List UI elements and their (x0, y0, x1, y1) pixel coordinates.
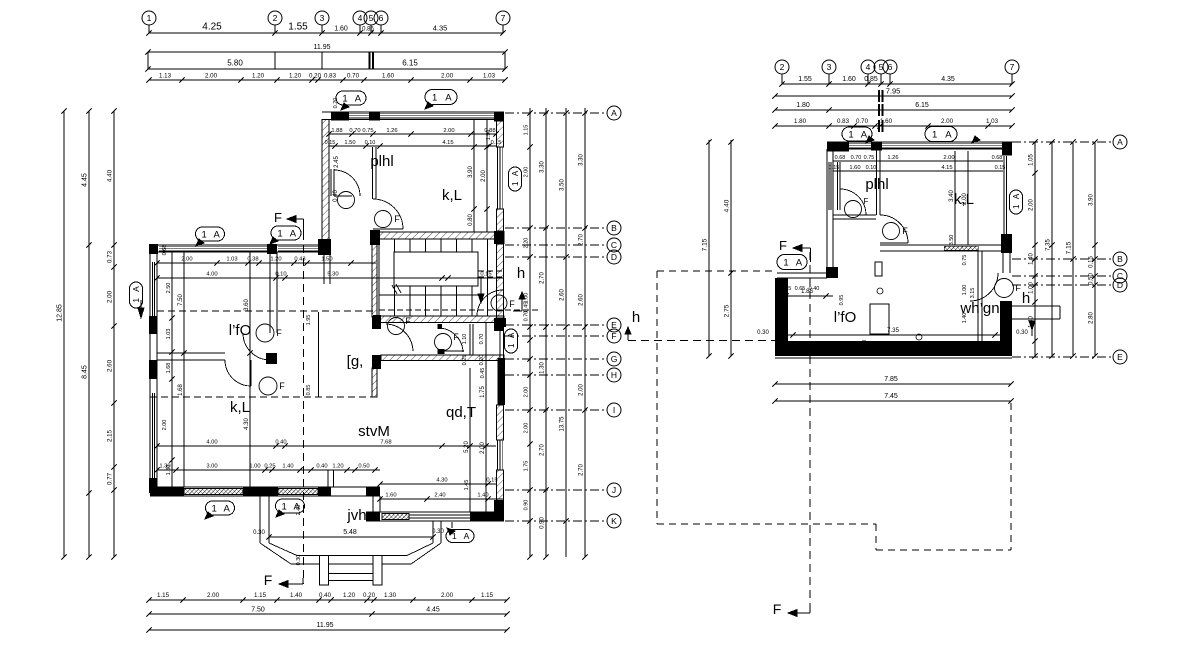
svg-text:12.85: 12.85 (57, 304, 64, 322)
svg-text:1.45: 1.45 (464, 480, 470, 491)
grid bubble E (left plan right) (607, 318, 621, 332)
svg-text:1.60: 1.60 (849, 165, 860, 171)
rp chimney arrow (1029, 321, 1035, 330)
rp window top 1 (849, 142, 871, 144)
svg-text:A: A (213, 229, 220, 240)
svg-text:6: 6 (888, 62, 893, 72)
door circle lfO upper (256, 324, 274, 342)
door circle bath right (wc) (435, 334, 452, 351)
svg-text:0.30: 0.30 (253, 530, 265, 536)
svg-text:0.90: 0.90 (540, 517, 546, 529)
rp fixture rect lfO (870, 304, 889, 334)
svg-text:2: 2 (780, 62, 785, 72)
section marker arrow a (341, 103, 349, 110)
svg-text:E: E (611, 320, 617, 330)
svg-text:1.03: 1.03 (166, 329, 172, 340)
grid leader 2 (right plan) (781, 74, 783, 84)
svg-text:3.00: 3.00 (206, 464, 217, 470)
svg-text:A: A (131, 286, 141, 292)
rp pier top-mid (871, 142, 882, 151)
wall corridor west hatched (372, 368, 377, 397)
svg-text:[g,: [g, (347, 353, 364, 370)
svg-text:5.80: 5.80 (227, 59, 243, 68)
grid leader J (505, 489, 606, 491)
svg-text:0.38: 0.38 (247, 257, 258, 263)
column pier top-left upper block (331, 112, 349, 121)
svg-text:0.15: 0.15 (491, 140, 502, 146)
svg-text:1.30: 1.30 (540, 362, 546, 374)
rp thick wall south (775, 341, 1012, 356)
svg-text:0.20: 0.20 (479, 355, 485, 366)
svg-text:1.15: 1.15 (524, 125, 530, 136)
section oval jvh (446, 530, 474, 543)
rp rotated section oval right (1010, 190, 1023, 214)
svg-text:plhl: plhl (865, 176, 888, 193)
kL inner vdim 3.90 (473, 119, 475, 232)
grid leader 4 (right plan) (867, 74, 869, 84)
grid leader H (505, 374, 606, 376)
svg-text:1.55: 1.55 (288, 22, 308, 33)
section marker oval 1A b (425, 90, 457, 105)
svg-text:0.15: 0.15 (829, 165, 840, 171)
rp section oval top2 (925, 127, 957, 142)
svg-text:4.00: 4.00 (206, 440, 217, 446)
svg-text:2.75: 2.75 (724, 304, 731, 317)
svg-text:1.05: 1.05 (1029, 154, 1035, 166)
grid bubble A (left plan right) (607, 106, 621, 120)
porch dim 5.48 (269, 536, 433, 538)
rp window kL south (944, 246, 978, 250)
svg-text:1: 1 (131, 298, 141, 303)
column pier qdT bottom-right (494, 500, 504, 521)
stair lower flight line (379, 294, 478, 296)
svg-text:qd,T: qd,T (446, 404, 476, 421)
column pier top-mid upper block (369, 112, 380, 121)
rp wall right window (1003, 156, 1005, 234)
section F bottom arrow (279, 581, 288, 588)
rp window left (828, 162, 830, 210)
svg-text:7.15: 7.15 (1066, 241, 1073, 254)
window top wall plhl (349, 112, 369, 114)
svg-text:0.75: 0.75 (864, 155, 875, 161)
wall lower-block left (149, 252, 151, 487)
svg-text:A: A (611, 108, 617, 118)
grid leader D (505, 256, 606, 258)
svg-text:1.50: 1.50 (321, 257, 332, 263)
rp grid leader A (1012, 141, 1112, 143)
svg-text:0.20: 0.20 (363, 592, 376, 599)
svg-text:1.10: 1.10 (462, 334, 468, 345)
grid bubble F (left plan right) (607, 329, 621, 343)
svg-text:0.25: 0.25 (781, 286, 792, 292)
svg-text:7.15: 7.15 (702, 238, 709, 251)
view marker oval left edge (130, 282, 143, 308)
svg-text:1: 1 (932, 129, 937, 140)
interior wall lfO south (157, 352, 225, 354)
svg-text:A: A (445, 92, 452, 103)
svg-text:1.75: 1.75 (480, 386, 486, 398)
svg-text:8.45: 8.45 (82, 365, 89, 379)
rp step wall (777, 272, 827, 274)
rp dashed outline west (656, 271, 658, 524)
column pier stair top-right (494, 231, 504, 244)
porch outline outer (260, 543, 441, 564)
door arc bath right (438, 328, 463, 352)
grid leader line 4 (359, 25, 361, 33)
grid bubble 6 (right plan top) (883, 60, 897, 74)
grid bubble B (left plan right) (607, 221, 621, 235)
grid bubble 3 (left plan top) (315, 11, 329, 25)
wall lb bottom black 1 (150, 487, 184, 496)
svg-text:13.75: 13.75 (560, 416, 566, 432)
section oval lb mid1 (196, 227, 225, 241)
rp section arrow top2 (972, 136, 980, 143)
svg-text:F: F (611, 331, 616, 341)
svg-text:2.60: 2.60 (560, 289, 566, 301)
wall bath bottom (381, 355, 504, 361)
svg-text:3.40: 3.40 (949, 190, 955, 202)
rp right dim col4 (1094, 142, 1096, 356)
svg-text:4.35: 4.35 (433, 24, 448, 33)
rp closet bottom wall (833, 214, 876, 216)
svg-text:7: 7 (1010, 62, 1015, 72)
g-room dashes bottom (150, 396, 376, 398)
rp interior wall kL south (880, 244, 1003, 246)
svg-text:2.00: 2.00 (941, 118, 954, 125)
rp wall left (826, 149, 828, 267)
rp grid bubble D (1113, 278, 1127, 292)
dimension line row1 (left plan top) (149, 32, 503, 34)
svg-text:1.13: 1.13 (159, 73, 172, 80)
svg-text:2.50: 2.50 (166, 283, 172, 294)
svg-text:3.60: 3.60 (244, 299, 250, 311)
door pier bath left top (373, 315, 381, 328)
svg-text:D: D (1117, 280, 1123, 290)
svg-text:1.40: 1.40 (282, 464, 293, 470)
grid bubble K (left plan right) (607, 514, 621, 528)
svg-text:6.15: 6.15 (402, 59, 418, 68)
rp wall south outer face line (775, 357, 1012, 359)
grid leader K (505, 520, 606, 522)
svg-text:1.20: 1.20 (270, 257, 281, 263)
svg-text:3: 3 (827, 62, 832, 72)
porch side walls left (259, 496, 261, 543)
grid leader line 5 (370, 25, 372, 33)
rp dashed outline north (657, 270, 775, 272)
wall lb bottom black 3 (318, 487, 331, 496)
view marker arrow left edge (138, 308, 144, 318)
rp door circle plhl closet (845, 201, 862, 218)
stair dashed break upper (478, 270, 503, 272)
g-room west line (318, 312, 320, 397)
rp dim row interior1 (833, 160, 1003, 162)
grid bubble J (left plan right) (607, 483, 621, 497)
svg-text:F: F (1015, 283, 1021, 293)
svg-text:0.15: 0.15 (325, 140, 336, 146)
bath wc leaf (440, 350, 464, 352)
svg-text:0.65: 0.65 (795, 286, 806, 292)
svg-text:5: 5 (369, 13, 374, 23)
svg-text:2.00: 2.00 (579, 384, 585, 396)
left vertical dim line segments (113, 111, 115, 557)
svg-text:A: A (507, 332, 516, 338)
svg-text:1.80: 1.80 (796, 102, 810, 109)
svg-text:2.00: 2.00 (480, 442, 486, 454)
svg-text:1.00: 1.00 (249, 464, 260, 470)
rp dashed outline east (1010, 403, 1012, 550)
wall lower-block bottom (150, 486, 380, 488)
svg-text:2.70: 2.70 (540, 272, 546, 284)
svg-text:0.77: 0.77 (107, 472, 114, 485)
svg-text:0.25: 0.25 (462, 355, 468, 366)
svg-text:A: A (464, 531, 470, 541)
svg-text:2.00: 2.00 (943, 155, 954, 161)
lb dim row lower2 (157, 469, 380, 471)
grid bubble 5 (left plan top) (364, 11, 378, 25)
svg-text:2.00: 2.00 (962, 193, 968, 205)
svg-text:0.70: 0.70 (524, 311, 530, 322)
rp grid bubble E (1113, 350, 1127, 364)
svg-text:1.95: 1.95 (306, 315, 312, 326)
column pier lb left 1 (149, 316, 158, 334)
qdT vert dim b (485, 322, 487, 512)
svg-text:A: A (861, 129, 868, 140)
rp fixture duct (875, 262, 882, 276)
grid bubble C (left plan right) (607, 238, 621, 252)
svg-text:2.00: 2.00 (181, 257, 192, 263)
svg-text:5.20: 5.20 (464, 441, 470, 453)
section oval lb bottom1 (206, 501, 235, 515)
svg-text:1.26: 1.26 (887, 155, 898, 161)
svg-text:4.45: 4.45 (82, 173, 89, 187)
bath wc pier a (438, 324, 443, 329)
wall jvh step pier (366, 487, 380, 496)
svg-text:1: 1 (507, 343, 516, 348)
svg-text:0.15: 0.15 (995, 165, 1006, 171)
qdT vert dim a (469, 368, 471, 512)
svg-text:0.30: 0.30 (432, 529, 444, 535)
wall upper-block top outline (322, 111, 504, 113)
grid leader 5 (right plan) (880, 74, 882, 84)
rp dim row interior2 (833, 170, 1003, 172)
rp door circle plhl-kL (883, 223, 900, 240)
rp grid bubble C (1113, 269, 1127, 283)
rp grid bubble B (1113, 252, 1127, 266)
window lb top 2 (278, 245, 318, 247)
svg-text:4.15: 4.15 (442, 140, 453, 146)
wall upper-block right upper (497, 120, 504, 148)
svg-text:h: h (632, 309, 640, 326)
svg-text:3.15: 3.15 (970, 288, 976, 299)
grid leader A (505, 112, 606, 114)
svg-text:1.50: 1.50 (344, 140, 355, 146)
svg-text:1.03: 1.03 (483, 73, 496, 80)
svg-text:2.00: 2.00 (107, 290, 114, 303)
dimension band box (left plan top) (148, 51, 505, 53)
grid bubble 1 (left plan top) (142, 11, 156, 25)
qdT dim row bottom (380, 498, 504, 500)
svg-text:K: K (611, 516, 617, 526)
svg-text:1.60: 1.60 (334, 26, 348, 33)
rp section arrow top1 (866, 136, 874, 143)
svg-text:0.83: 0.83 (324, 73, 337, 80)
svg-text:2.00: 2.00 (441, 592, 454, 599)
svg-text:0.80: 0.80 (468, 214, 474, 226)
grid bubble 4 (left plan top) (353, 11, 367, 25)
wall qdT right black bar (498, 358, 506, 405)
door arc bath left (386, 324, 413, 351)
column pier stair top-left (370, 230, 380, 245)
svg-text:1.75: 1.75 (524, 461, 530, 472)
svg-text:1.30: 1.30 (166, 465, 172, 476)
grid bubble 7 (left plan top) (496, 11, 510, 25)
column pier lb top-right (318, 239, 331, 255)
svg-text:plhl: plhl (370, 153, 393, 170)
svg-text:7.35: 7.35 (887, 327, 900, 334)
svg-text:1.20: 1.20 (343, 592, 356, 599)
bath window right wall (499, 327, 501, 358)
section arrow lb mid2 (270, 237, 278, 244)
rp right dim col3 (1072, 142, 1074, 356)
svg-text:0.73: 0.73 (107, 250, 114, 263)
rp thick wall west (775, 278, 788, 356)
grid bubble H (left plan right) (607, 368, 621, 382)
grid bubble 7 (right plan top) (1005, 60, 1019, 74)
rp grid leader C (1012, 275, 1112, 277)
right vertical dim col1 (529, 108, 531, 557)
rp fixture circle2 (877, 288, 883, 294)
lb vert dim 7.50 (183, 252, 185, 487)
rp fixture circle small (916, 334, 922, 340)
svg-text:2.00: 2.00 (524, 387, 530, 398)
svg-text:0.15: 0.15 (486, 478, 497, 484)
door pier lfO (266, 353, 277, 364)
svg-text:0.90: 0.90 (524, 500, 530, 511)
svg-text:stvM: stvM (358, 423, 390, 440)
svg-text:0.20: 0.20 (309, 73, 322, 80)
rp section oval top1 (842, 127, 872, 141)
svg-text:4.40: 4.40 (724, 199, 731, 212)
rp pier left bottom (826, 267, 838, 278)
svg-text:3.90: 3.90 (1089, 194, 1095, 206)
svg-text:2.40: 2.40 (296, 505, 302, 516)
svg-text:1.00: 1.00 (1029, 282, 1035, 294)
rp pier top-right (1002, 142, 1012, 156)
svg-text:1.90: 1.90 (486, 130, 492, 141)
closet wall plhl (330, 169, 332, 196)
svg-text:0.85: 0.85 (362, 27, 374, 33)
svg-text:7.85: 7.85 (884, 376, 898, 383)
svg-text:7.35: 7.35 (1046, 239, 1052, 251)
rp window top 2 (882, 142, 1002, 144)
svg-text:1.80: 1.80 (794, 118, 807, 125)
svg-text:2: 2 (273, 13, 278, 23)
svg-text:2.00: 2.00 (481, 170, 487, 182)
grid bubble 6 (left plan top) (374, 11, 388, 25)
wall lb bottom black 2 (243, 487, 278, 496)
svg-text:2.70: 2.70 (579, 464, 585, 476)
rp kL vdim a (954, 151, 956, 245)
svg-text:0.30: 0.30 (757, 330, 769, 336)
svg-text:7.50: 7.50 (251, 607, 265, 614)
window right wall kL (497, 147, 499, 209)
svg-text:B: B (1117, 254, 1123, 264)
rp section line dashed (809, 252, 811, 612)
grid leader B (505, 227, 606, 229)
section arrow lb bottom1 (205, 512, 213, 519)
svg-text:1.26: 1.26 (386, 128, 397, 134)
stair landing rect (394, 252, 478, 286)
svg-text:0.75: 0.75 (362, 128, 373, 134)
rp left dim col1 (708, 140, 710, 356)
dim row plhl lower (329, 145, 496, 147)
svg-text:F: F (276, 328, 282, 338)
rp dim row3 (775, 109, 1012, 111)
column pier top-right upper block (494, 112, 504, 122)
svg-text:4.35: 4.35 (941, 76, 955, 83)
grid bubble D (left plan right) (607, 250, 621, 264)
wall plhl/kL divider (372, 147, 374, 199)
rp dashed outline south1 (657, 523, 876, 525)
svg-text:C: C (611, 240, 617, 250)
svg-text:0.15: 0.15 (1089, 256, 1095, 268)
grid bubble 2 (right plan top) (775, 60, 789, 74)
rp closet wall plhl (837, 162, 839, 210)
svg-text:7.68: 7.68 (380, 440, 391, 446)
wall under upper block (stair top) (372, 232, 504, 239)
svg-text:1.15: 1.15 (157, 592, 170, 599)
rp grid leader B (1012, 258, 1112, 260)
rp door arc whgn (970, 273, 998, 301)
svg-text:4.30: 4.30 (436, 478, 447, 484)
svg-text:1.60: 1.60 (842, 76, 856, 83)
svg-text:3.50: 3.50 (949, 235, 955, 246)
svg-text:1.00: 1.00 (962, 285, 968, 296)
rp grid bubble A (1113, 135, 1127, 149)
window qdT right (497, 440, 499, 470)
porch steps bar left (320, 556, 329, 586)
wall stair bottom (380, 316, 504, 323)
wall notch stvM (327, 470, 329, 487)
svg-text:1.88: 1.88 (331, 128, 342, 134)
svg-text:0.68: 0.68 (162, 245, 168, 256)
svg-text:0.40: 0.40 (275, 440, 286, 446)
svg-text:l’fO: l’fO (834, 309, 857, 326)
svg-text:B: B (611, 223, 617, 233)
column pier lb top-left (149, 244, 158, 254)
grid bubble 2 (left plan top) (268, 11, 282, 25)
svg-text:1: 1 (342, 93, 347, 104)
grid leader 6 (right plan) (889, 74, 891, 84)
svg-text:2.45: 2.45 (334, 156, 340, 168)
svg-text:2.60: 2.60 (579, 294, 585, 306)
svg-text:0.30: 0.30 (296, 555, 302, 566)
svg-text:4.25: 4.25 (202, 22, 222, 33)
wall upper-block right lower (497, 209, 504, 231)
grid leader C (505, 244, 606, 246)
wall jvh bottom lines (409, 514, 470, 516)
section arrow jvh (447, 528, 455, 535)
stair down arrow (480, 278, 482, 296)
column pier lb top-mid (267, 244, 277, 254)
interior wall lfO east (269, 252, 271, 333)
svg-text:5.48: 5.48 (343, 529, 357, 536)
svg-text:0.10: 0.10 (365, 140, 376, 146)
svg-text:2.00: 2.00 (441, 73, 454, 80)
bath wc pier b (438, 349, 445, 354)
grid leader E (505, 324, 606, 326)
svg-text:D: D (611, 252, 617, 262)
